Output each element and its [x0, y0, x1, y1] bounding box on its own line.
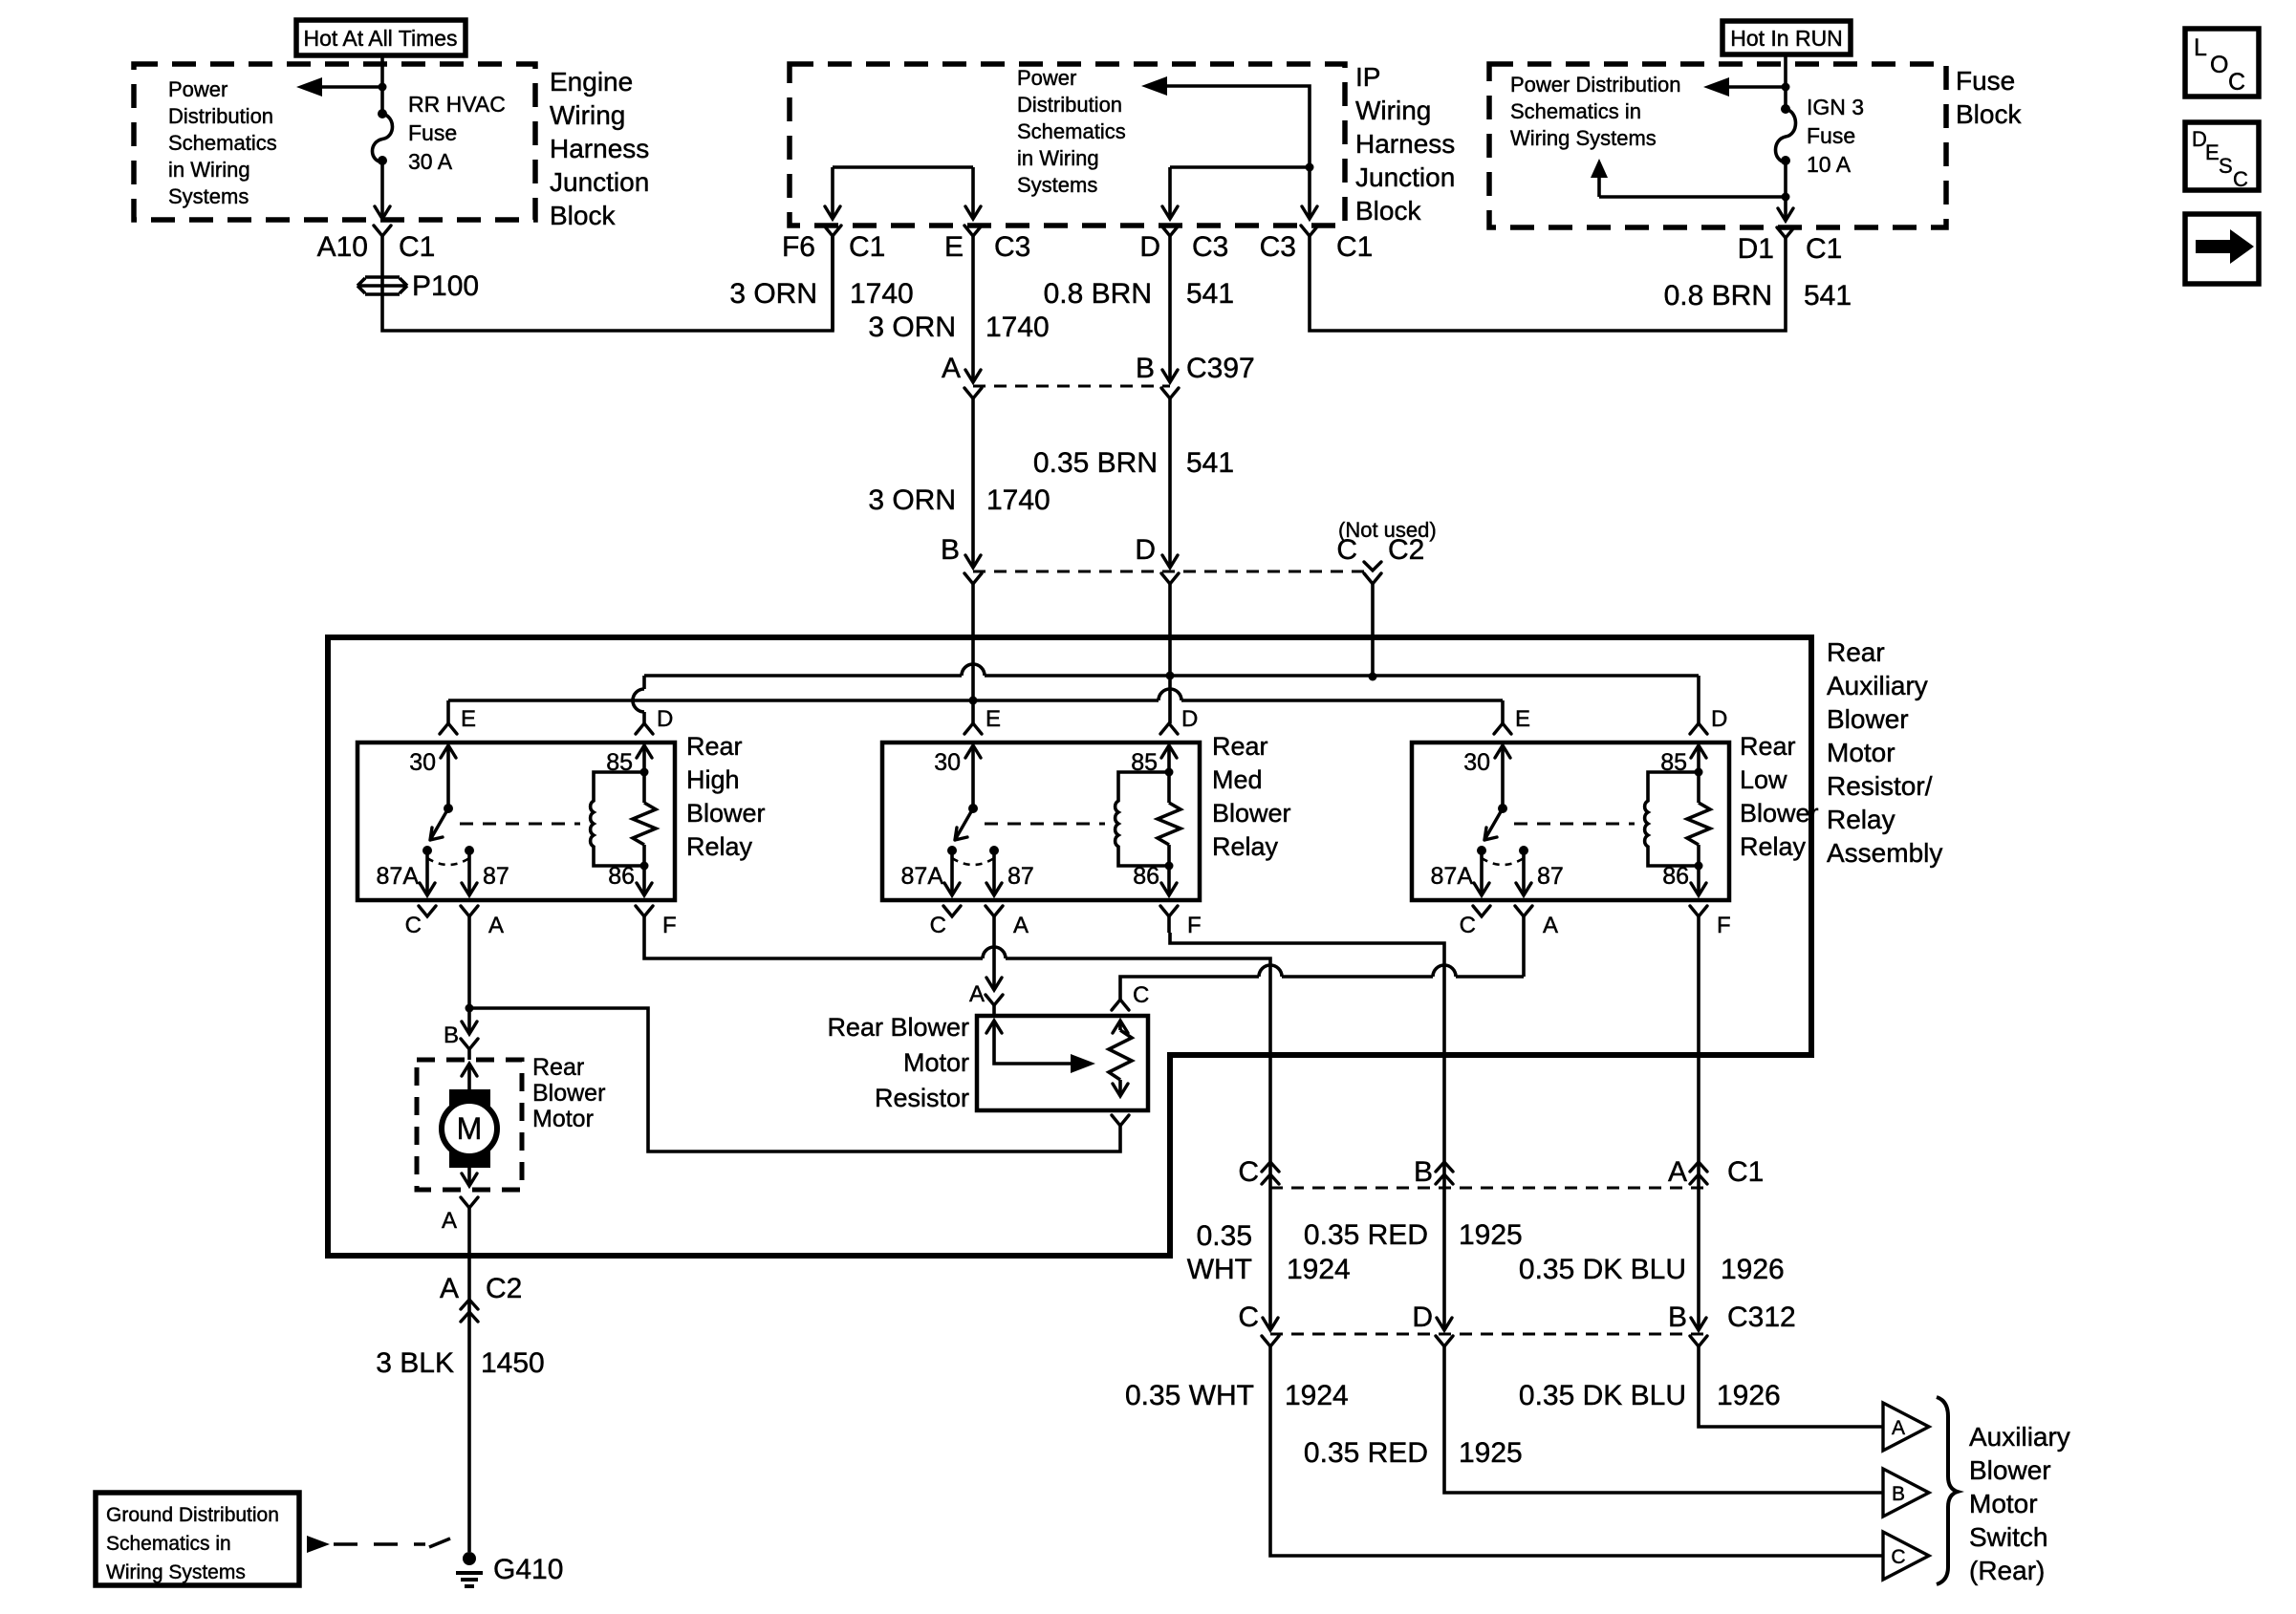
svg-text:87A: 87A: [377, 863, 420, 890]
svg-text:Fuse: Fuse: [1807, 123, 1855, 148]
svg-text:Blower: Blower: [532, 1080, 605, 1107]
svg-text:Schematics in: Schematics in: [1510, 99, 1641, 123]
svg-text:87: 87: [483, 863, 509, 890]
svg-text:Junction: Junction: [550, 167, 649, 197]
svg-text:M: M: [457, 1111, 483, 1146]
svg-text:Power: Power: [168, 77, 227, 101]
svg-text:Motor: Motor: [1969, 1489, 2038, 1518]
svg-text:Motor: Motor: [532, 1106, 594, 1132]
svg-text:Wiring Systems: Wiring Systems: [1510, 126, 1657, 150]
svg-text:(Rear): (Rear): [1969, 1556, 2045, 1585]
svg-text:Med: Med: [1212, 765, 1263, 794]
svg-text:Rear: Rear: [532, 1054, 584, 1081]
svg-text:A: A: [442, 1208, 457, 1234]
svg-text:D1: D1: [1738, 233, 1774, 265]
svg-text:10 A: 10 A: [1807, 152, 1852, 177]
svg-text:A: A: [1668, 1156, 1687, 1188]
svg-text:G410: G410: [493, 1554, 563, 1585]
svg-text:Motor: Motor: [903, 1048, 969, 1077]
svg-text:S: S: [2219, 154, 2233, 178]
svg-text:C: C: [1336, 534, 1357, 566]
svg-text:C3: C3: [994, 231, 1030, 263]
svg-text:3 BLK: 3 BLK: [376, 1347, 454, 1379]
svg-text:0.35 WHT: 0.35 WHT: [1125, 1380, 1254, 1411]
svg-text:C312: C312: [1727, 1302, 1796, 1333]
svg-text:E: E: [461, 706, 476, 732]
svg-text:541: 541: [1804, 280, 1852, 312]
svg-text:Rear: Rear: [1827, 637, 1885, 667]
svg-text:Motor: Motor: [1827, 738, 1895, 767]
svg-text:C3: C3: [1260, 231, 1296, 263]
svg-text:Schematics: Schematics: [1017, 119, 1126, 143]
svg-text:Distribution: Distribution: [1017, 93, 1122, 117]
svg-text:B: B: [1414, 1156, 1433, 1188]
svg-text:Hot In RUN: Hot In RUN: [1730, 26, 1843, 51]
svg-text:A: A: [488, 913, 504, 938]
svg-text:D: D: [1412, 1302, 1433, 1333]
svg-text:Resistor/: Resistor/: [1827, 771, 1933, 801]
svg-text:Power: Power: [1017, 66, 1076, 90]
svg-text:Assembly: Assembly: [1827, 838, 1942, 868]
svg-text:F: F: [662, 913, 677, 938]
svg-text:541: 541: [1186, 278, 1234, 310]
svg-text:High: High: [686, 765, 740, 794]
svg-text:1925: 1925: [1459, 1219, 1523, 1251]
svg-text:0.35 DK BLU: 0.35 DK BLU: [1519, 1380, 1686, 1411]
svg-text:1740: 1740: [986, 484, 1051, 516]
svg-text:IGN 3: IGN 3: [1807, 95, 1864, 119]
svg-text:Blower: Blower: [1740, 799, 1819, 828]
svg-text:C397: C397: [1186, 353, 1255, 384]
svg-text:C: C: [1238, 1156, 1259, 1188]
svg-text:Hot At All Times: Hot At All Times: [303, 26, 457, 51]
svg-text:L: L: [2194, 34, 2207, 61]
svg-text:RR HVAC: RR HVAC: [408, 92, 506, 117]
svg-text:C: C: [2233, 167, 2248, 191]
svg-text:B: B: [1668, 1302, 1687, 1333]
svg-text:in Wiring: in Wiring: [1017, 146, 1099, 170]
svg-text:3 ORN: 3 ORN: [729, 278, 817, 310]
svg-text:Auxiliary: Auxiliary: [1827, 671, 1928, 700]
svg-text:Fuse: Fuse: [1956, 66, 2015, 96]
svg-text:in Wiring: in Wiring: [168, 158, 250, 182]
svg-text:E: E: [2205, 140, 2220, 164]
svg-text:Systems: Systems: [1017, 173, 1097, 197]
svg-text:0.35: 0.35: [1197, 1220, 1252, 1252]
svg-text:1926: 1926: [1721, 1254, 1785, 1285]
svg-text:1740: 1740: [986, 312, 1050, 343]
svg-text:A10: A10: [317, 231, 368, 263]
svg-text:0.8 BRN: 0.8 BRN: [1044, 278, 1152, 310]
svg-text:WHT: WHT: [1187, 1254, 1252, 1285]
svg-text:0.35 BRN: 0.35 BRN: [1033, 447, 1158, 479]
svg-text:1740: 1740: [850, 278, 914, 310]
svg-text:C1: C1: [399, 231, 435, 263]
svg-text:C: C: [1133, 982, 1149, 1008]
svg-text:Blower: Blower: [1212, 799, 1291, 828]
svg-text:Wiring Systems: Wiring Systems: [106, 1561, 246, 1583]
svg-text:Distribution: Distribution: [168, 104, 273, 128]
svg-text:Block: Block: [550, 201, 616, 230]
svg-text:0.8 BRN: 0.8 BRN: [1664, 280, 1772, 312]
svg-text:C3: C3: [1192, 231, 1228, 263]
svg-text:A: A: [969, 981, 985, 1007]
svg-text:P100: P100: [412, 270, 479, 302]
svg-text:D: D: [657, 706, 673, 732]
svg-text:IP: IP: [1355, 62, 1380, 92]
svg-text:Fuse: Fuse: [408, 120, 457, 145]
svg-text:E: E: [944, 231, 964, 263]
svg-text:Engine: Engine: [550, 67, 633, 97]
svg-text:1926: 1926: [1717, 1380, 1781, 1411]
svg-text:Power Distribution: Power Distribution: [1510, 73, 1681, 97]
svg-text:Rear Blower: Rear Blower: [827, 1013, 969, 1042]
svg-text:Switch: Switch: [1969, 1522, 2047, 1552]
svg-text:3 ORN: 3 ORN: [868, 312, 956, 343]
svg-text:C: C: [405, 913, 422, 938]
svg-text:Rear: Rear: [686, 732, 743, 761]
svg-text:1924: 1924: [1285, 1380, 1349, 1411]
svg-text:0.35 DK BLU: 0.35 DK BLU: [1519, 1254, 1686, 1285]
svg-text:C2: C2: [1388, 534, 1424, 566]
svg-text:1925: 1925: [1459, 1437, 1523, 1469]
svg-text:Block: Block: [1355, 196, 1421, 226]
svg-text:30: 30: [409, 749, 436, 776]
svg-text:C1: C1: [1806, 233, 1842, 265]
svg-text:85: 85: [606, 749, 633, 776]
svg-text:Wiring: Wiring: [550, 100, 625, 130]
svg-text:Rear: Rear: [1212, 732, 1268, 761]
svg-text:C: C: [2228, 69, 2245, 96]
svg-text:B: B: [1136, 353, 1155, 384]
svg-text:C1: C1: [1727, 1156, 1764, 1188]
svg-text:1924: 1924: [1287, 1254, 1351, 1285]
svg-text:Blower: Blower: [1827, 704, 1909, 734]
svg-text:Harness: Harness: [1355, 129, 1455, 159]
svg-text:Harness: Harness: [550, 134, 649, 163]
svg-text:Schematics in: Schematics in: [106, 1533, 231, 1555]
svg-text:A: A: [1892, 1417, 1905, 1439]
svg-text:Block: Block: [1956, 99, 2022, 129]
svg-text:541: 541: [1186, 447, 1234, 479]
svg-text:B: B: [941, 534, 960, 566]
svg-text:Schematics: Schematics: [168, 131, 277, 155]
svg-text:3 ORN: 3 ORN: [868, 484, 956, 516]
svg-text:Blower: Blower: [686, 799, 766, 828]
svg-text:B: B: [1892, 1483, 1905, 1505]
svg-text:Wiring: Wiring: [1355, 96, 1431, 125]
svg-text:Relay: Relay: [686, 832, 753, 861]
svg-text:O: O: [2210, 52, 2228, 78]
svg-text:Rear: Rear: [1740, 732, 1796, 761]
svg-text:Systems: Systems: [168, 184, 249, 208]
svg-text:C: C: [1891, 1546, 1905, 1568]
svg-text:0.35 RED: 0.35 RED: [1304, 1437, 1428, 1469]
svg-text:86: 86: [608, 863, 635, 890]
svg-text:Junction: Junction: [1355, 162, 1455, 192]
svg-text:Low: Low: [1740, 765, 1787, 794]
svg-text:0.35 RED: 0.35 RED: [1304, 1219, 1428, 1251]
svg-text:Resistor: Resistor: [875, 1084, 969, 1112]
svg-text:Relay: Relay: [1740, 832, 1807, 861]
svg-text:B: B: [444, 1022, 459, 1048]
svg-text:C: C: [1238, 1302, 1259, 1333]
svg-text:C1: C1: [849, 231, 885, 263]
svg-text:C2: C2: [486, 1273, 522, 1304]
svg-text:Blower: Blower: [1969, 1455, 2051, 1485]
svg-text:Auxiliary: Auxiliary: [1969, 1422, 2070, 1452]
svg-text:Relay: Relay: [1212, 832, 1279, 861]
svg-text:C1: C1: [1336, 231, 1373, 263]
svg-text:1450: 1450: [481, 1347, 545, 1379]
svg-text:A: A: [440, 1273, 459, 1304]
svg-text:Relay: Relay: [1827, 805, 1895, 834]
svg-text:D: D: [1139, 231, 1160, 263]
svg-text:30 A: 30 A: [408, 149, 453, 174]
svg-text:D: D: [1135, 534, 1156, 566]
svg-text:Ground Distribution: Ground Distribution: [106, 1504, 279, 1526]
svg-text:A: A: [942, 353, 961, 384]
svg-text:F6: F6: [782, 231, 815, 263]
